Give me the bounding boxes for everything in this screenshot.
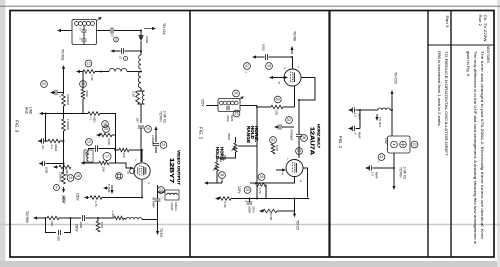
label HORIZ HOLD (215, 147, 224, 162)
video output tube V1 12BY7 (130, 163, 151, 179)
resistor R7 4.7MEG (59, 165, 71, 169)
capacitor C21 .5MMF (348, 126, 360, 131)
part callout 51 (270, 137, 277, 144)
svg-text:46: 46 (220, 173, 224, 177)
node under tuner (393, 167, 395, 169)
svg-text:14: 14 (81, 82, 85, 86)
wire branch down from AGC (45, 114, 47, 142)
svg-text:4.5MC: 4.5MC (170, 202, 174, 212)
svg-text:4.7K: 4.7K (94, 201, 98, 207)
FIG2 left rail (256, 106, 258, 199)
label 2.2K (132, 91, 136, 97)
wire rail R3 to R4 (63, 106, 65, 119)
label 1.5 at C3 (111, 34, 115, 38)
svg-text:240V: 240V (62, 196, 66, 204)
node diode-capacitor branch (140, 51, 142, 53)
wire L2 to left node (101, 71, 141, 73)
wire 183 line (208, 180, 222, 184)
capacitor C6 .047 (138, 126, 144, 128)
note heading TO REDUCE HORIZONTAL OSCILLATOR DRIFT (444, 51, 448, 157)
svg-text:1MHG: 1MHG (174, 202, 178, 211)
arrow left at 183 (204, 181, 209, 184)
svg-text:NEW TUBES: NEW TUBES (486, 46, 490, 63)
svg-text:MMF: MMF (358, 132, 362, 139)
label TO C5 (296, 220, 300, 230)
resistor R18 4.7K (255, 183, 266, 199)
label 68 MMF (152, 197, 156, 208)
label 2.2MMF (151, 135, 155, 146)
svg-text:Run 2: Run 2 (478, 15, 482, 27)
label 4.7 MEG b (89, 117, 97, 123)
capacitor C7 with arrow (50, 90, 64, 98)
svg-text:4000: 4000 (84, 152, 86, 158)
svg-text:5.6K: 5.6K (275, 145, 279, 151)
wire rail down (63, 131, 65, 172)
svg-text:1.5MEG: 1.5MEG (66, 119, 70, 131)
node AGC junction (63, 113, 65, 115)
capacitor C10 (89, 145, 116, 151)
wire right rail down (157, 220, 159, 229)
label 240V (62, 196, 66, 204)
svg-text:68 MMF: 68 MMF (152, 197, 156, 208)
bottom scan margin (0, 261, 500, 267)
label 260V (61, 195, 65, 203)
label TO C25 (394, 72, 398, 84)
label 10K b (275, 110, 279, 115)
part callout 13 (85, 60, 92, 67)
resistor R16 10K (256, 86, 295, 109)
svg-text:18: 18 (69, 176, 73, 180)
capacitor C20 1.5MMF (348, 107, 360, 112)
peaking coil L1 (139, 55, 141, 69)
tube V1 grid X (127, 171, 130, 175)
part callout 8 (54, 185, 60, 191)
svg-text:.22: .22 (41, 145, 45, 150)
label 225V feed (201, 99, 205, 107)
svg-text:HORIZ MULT: HORIZ MULT (317, 124, 321, 149)
wire T2 to rail (240, 105, 257, 107)
part callout 15 at C3 (114, 37, 119, 42)
top scan edge line (0, 5, 500, 7)
wire 57 line right (269, 56, 293, 58)
resistor R9 470K grid (100, 133, 112, 137)
label 2200 MMF (226, 115, 234, 122)
svg-text:24: 24 (42, 82, 46, 86)
svg-text:8: 8 (56, 186, 58, 190)
spark gap symbol (116, 173, 123, 180)
svg-text:FIG. 2: FIG. 2 (199, 127, 204, 140)
svg-text:50: 50 (276, 98, 280, 102)
label 1.2K (111, 211, 115, 217)
FIG. 3 caption (15, 120, 20, 133)
label HORIZ HOLD RANGE (246, 126, 259, 143)
svg-text:24: 24 (162, 143, 166, 147)
wire AGC to grid column (100, 114, 116, 136)
part callout 38 (301, 135, 308, 142)
svg-text:13: 13 (87, 62, 91, 66)
part callout 14 (80, 81, 87, 88)
bypass loop rectangle (46, 218, 71, 233)
svg-text:52: 52 (287, 118, 291, 122)
resistor R20 270K (263, 209, 277, 213)
tube V1 pin 7 label (135, 158, 137, 162)
wire into top tube grid (269, 76, 288, 85)
svg-text:.5: .5 (354, 132, 358, 135)
note header Run 3 (445, 16, 449, 28)
arrow left on grid line (76, 70, 81, 73)
wire grid line y72 (79, 71, 101, 73)
tube V2B plate loop (298, 78, 315, 198)
svg-text:10K: 10K (275, 110, 279, 115)
transformer T2 winding (220, 101, 238, 105)
part callout 15 (103, 126, 110, 133)
capacitor C5 branch (113, 48, 141, 54)
part callout 52 (286, 117, 293, 124)
pin labels V2B (287, 157, 302, 183)
part callout 24 top-left (41, 81, 48, 88)
note header Run 2 (478, 15, 482, 27)
label 1.5 MMF a (354, 113, 362, 120)
boxed coil 4.5MC trap (165, 190, 179, 200)
wire y163 segment (85, 163, 131, 168)
tube V1 grid lead (128, 167, 134, 170)
left rail wire (63, 85, 65, 94)
svg-text:1000: 1000 (262, 44, 266, 51)
tube V1 cathode lead (141, 180, 143, 197)
wire top-left to transformer (61, 30, 73, 32)
label 12AU7A (309, 127, 315, 155)
node 257 on 198 line (256, 198, 258, 200)
svg-text:34: 34 (234, 92, 238, 96)
svg-text:1.5: 1.5 (354, 113, 358, 117)
label 1000 c (262, 44, 266, 51)
label TO PIN 1 OF V1 (159, 111, 167, 123)
FIG. 2 caption (199, 127, 204, 140)
svg-text:TO PIN: TO PIN (159, 111, 163, 122)
part callout 10 (145, 126, 152, 133)
node cathode junction (141, 197, 143, 199)
label 22K (50, 221, 54, 226)
capacitor C22 1.5MMF (365, 165, 394, 170)
svg-text:1N60: 1N60 (145, 36, 149, 44)
svg-text:47: 47 (245, 64, 249, 68)
label VIDEO OUTPUT (177, 150, 182, 186)
electrolytic 8 AMF (103, 184, 111, 193)
svg-text:325V: 325V (252, 206, 256, 213)
arrow down at 112 (110, 185, 113, 194)
label 130V (76, 193, 80, 201)
svg-text:470K: 470K (107, 138, 111, 145)
part callout 17 (103, 153, 111, 161)
label 240MMF (290, 129, 294, 141)
node at .22 cap (45, 140, 47, 142)
resistor R12 4.7K (90, 196, 102, 200)
svg-text:HOLD: HOLD (215, 147, 220, 159)
label 15MEG (59, 172, 63, 183)
part callout 46 (219, 172, 226, 179)
horiz mult tube V2B bottom half (286, 160, 303, 177)
svg-text:MEG: MEG (65, 170, 69, 178)
notes header separator line (428, 44, 494, 46)
svg-text:Ch. TV-223W: Ch. TV-223W (483, 15, 487, 42)
label 6.8MEG (66, 94, 70, 106)
capacitor C9 1000 (39, 161, 64, 166)
arrow TO R8 up (290, 46, 293, 54)
wire transformer to C3 (97, 30, 111, 32)
node loop left (45, 217, 47, 219)
diode M1 1N60 (139, 31, 144, 41)
svg-text:16: 16 (76, 174, 80, 178)
svg-text:FIG. 3: FIG. 3 (15, 120, 20, 133)
arrow 260V down (62, 187, 65, 193)
note paragraph line 2 (473, 51, 477, 244)
label .5 MMF (354, 132, 362, 139)
svg-text:TO R66: TO R66 (25, 211, 29, 223)
label 10K (122, 153, 126, 158)
wire 225V to T2 (206, 105, 218, 107)
capacitor C2 inside transformer (79, 36, 87, 45)
wire AGC line (43, 113, 88, 115)
capacitor C1 inside transformer (79, 26, 87, 37)
transformer T2 box (218, 99, 240, 112)
wire 211 line (277, 210, 295, 212)
svg-text:given in Fig. 8.: given in Fig. 8. (466, 51, 470, 77)
part callout 12 (86, 139, 93, 146)
svg-text:15M: 15M (384, 138, 388, 144)
node 294 on 198 line (294, 198, 296, 200)
trimmer arrow on transformer (97, 17, 102, 21)
note paragraph line 3 (466, 51, 470, 77)
label TO R31 b (378, 117, 382, 128)
wire coil chain down (140, 104, 142, 123)
wire 57 line left (256, 56, 265, 58)
node rail at 141 (63, 140, 65, 142)
part callout 21 (158, 187, 165, 194)
arrow TO C5 down (293, 211, 296, 218)
note paragraph line 1 (480, 51, 484, 239)
arrow left at 211 (259, 209, 264, 212)
svg-text:225V: 225V (201, 99, 205, 107)
resistor R2 3.3K (83, 70, 95, 74)
wire 198 line (231, 198, 309, 200)
pot hold range (222, 137, 257, 158)
label TO R8 (293, 31, 297, 41)
capacitor C11 2.2MMF (153, 135, 159, 153)
coil L5 bottom (124, 218, 158, 220)
node cap branch (359, 109, 361, 111)
svg-text:22K: 22K (50, 221, 54, 226)
part callout 34 (233, 90, 240, 97)
svg-text:+: + (245, 200, 247, 204)
svg-text:2.2K: 2.2K (132, 91, 136, 97)
svg-text:240MMF: 240MMF (290, 129, 294, 141)
coil L3 (138, 72, 141, 89)
part callout 42 (378, 154, 385, 163)
divider between FIG. 2 and FIG. 1 (328, 11, 330, 258)
resistor R4 1.5MEG (62, 119, 66, 131)
label 15M (384, 138, 388, 144)
svg-text:130V: 130V (76, 193, 80, 201)
part callout 50 (274, 96, 281, 103)
pin 2 label top tube (284, 66, 286, 70)
resistor R6 15MEG (62, 172, 66, 184)
resistor R17 5.6K (271, 144, 275, 154)
part callout 16b (102, 121, 109, 128)
svg-text:1.2K: 1.2K (111, 211, 115, 217)
boxed coil L4 (84, 150, 93, 162)
arrow TO C25 up (390, 90, 393, 97)
label .22 (41, 145, 45, 150)
right scan margin (497, 0, 500, 267)
label 250K (227, 133, 231, 140)
label .047 (136, 117, 140, 123)
wire tuner down (393, 153, 395, 186)
svg-text:4.7: 4.7 (89, 117, 93, 121)
svg-text:MMF: MMF (230, 115, 234, 122)
part callout 18b (266, 63, 273, 70)
wire plate line (114, 149, 142, 151)
capacitor C8 .22 (38, 138, 49, 143)
svg-text:TO REDUCE HORIZONTAL OSCILLATO: TO REDUCE HORIZONTAL OSCILLATOR DRIFT (444, 51, 448, 157)
arrow left of R7 (53, 165, 58, 168)
svg-text:1 OF V3: 1 OF V3 (403, 167, 407, 179)
node at 292 (291, 56, 293, 58)
svg-text:1.5: 1.5 (111, 34, 115, 38)
note line R50 increased (437, 51, 441, 127)
node at coil right (391, 109, 393, 111)
wire C14 to R15 (86, 217, 115, 219)
svg-text:270K: 270K (269, 214, 273, 221)
arrow left big (81, 161, 85, 164)
label 1.5 MMF b (371, 172, 379, 179)
arrow left at 57 (252, 55, 257, 58)
resistor R15 1.2K (114, 216, 124, 220)
node AGC branch (45, 113, 47, 115)
label 20MF 325V (248, 206, 256, 214)
left scan margin (0, 0, 6, 267)
label 3.3K (90, 75, 94, 81)
wire C25 down to node (391, 97, 393, 136)
svg-text:42: 42 (380, 155, 384, 159)
label TO PIN 1 OF V3 (399, 167, 407, 179)
svg-text:RANGE: RANGE (246, 126, 251, 143)
divider between Run 3 and Run 2 columns (450, 11, 452, 258)
part callout 24b (160, 142, 167, 149)
wire R66 line (37, 217, 46, 219)
svg-text:1.5: 1.5 (119, 56, 123, 60)
svg-text:470K: 470K (85, 90, 89, 97)
svg-text:15: 15 (104, 127, 108, 131)
wire diode to coil (140, 41, 142, 55)
wire plate top tube (292, 57, 294, 69)
svg-text:35: 35 (246, 188, 250, 192)
resistor R1 8.2K with parallel coil (136, 88, 145, 107)
label 4.5MC 1MHG (170, 202, 178, 212)
svg-text:MMF: MMF (375, 172, 379, 179)
label 4.7K b (258, 188, 262, 194)
arrow TO L2A (144, 27, 156, 30)
resistor R19 8.2K (219, 197, 231, 201)
wire C3 to node (114, 30, 141, 32)
resistor R10 25K (99, 161, 109, 165)
coupling coil L2 horizontal (109, 69, 127, 72)
label 5.6K (100, 222, 104, 228)
resistor R11 10K (119, 148, 129, 152)
label 8.2K b (223, 202, 227, 208)
svg-text:2200: 2200 (226, 115, 230, 122)
arrow TO R31 up (62, 65, 65, 93)
part callout 18 (67, 175, 74, 182)
svg-text:1000: 1000 (45, 167, 49, 174)
resistor R3 6.8MEG (62, 94, 66, 106)
label 1000 b (79, 222, 83, 229)
tuner adjust screw A (391, 141, 398, 148)
capacitor C17 240MMF (274, 124, 294, 129)
svg-text:250K: 250K (227, 133, 231, 140)
svg-text:12AU7A: 12AU7A (309, 127, 315, 155)
svg-text:53: 53 (297, 149, 301, 153)
node 249 on 198 line (249, 198, 251, 200)
svg-text:6.8MEG: 6.8MEG (66, 94, 70, 106)
svg-text:R50 is increased from 1 watt t: R50 is increased from 1 watt to 2 watts. (437, 51, 441, 127)
FIG. 1 caption (338, 136, 343, 149)
tuner box (388, 136, 411, 153)
label 4.7 MEG (61, 170, 69, 178)
node loop right (70, 217, 72, 219)
capacitor C15 in T2 (227, 106, 229, 110)
trimmer arrow T2 (240, 97, 244, 100)
svg-text:28: 28 (260, 175, 264, 179)
svg-text:AGC: AGC (25, 107, 29, 115)
capacitor C3 (111, 28, 113, 34)
arrow up TO PIN (154, 126, 157, 135)
svg-text:50K: 50K (223, 155, 227, 160)
wire coil left (360, 109, 392, 111)
horizontal scan artifact line (0, 224, 500, 226)
resistor R8 470K (81, 72, 85, 114)
label HORIZ MULT (317, 124, 321, 149)
svg-text:TO C5: TO C5 (296, 220, 300, 230)
svg-text:10: 10 (146, 127, 150, 131)
svg-text:The only difference is in the: The only difference is in the UHF dial c… (473, 51, 477, 244)
note header Ch. TV-223W (483, 15, 487, 42)
resistor R13 22K (47, 216, 59, 220)
svg-text:260V: 260V (75, 224, 79, 232)
part callout 28 (258, 174, 265, 181)
pot hold (213, 158, 222, 183)
node left of L2 (100, 71, 102, 73)
tube V2B grid arrow (276, 168, 286, 171)
wire R12 to cathode (102, 197, 142, 199)
svg-text:8.2K: 8.2K (223, 202, 227, 208)
label 1.5MEG (66, 119, 70, 131)
part callout 35 (244, 187, 251, 194)
label 470K (85, 90, 89, 97)
tuner adjust screw B (400, 141, 407, 148)
coil L6 (378, 108, 390, 110)
svg-text:4.7: 4.7 (61, 170, 65, 175)
svg-text:TO L2A: TO L2A (162, 23, 166, 35)
wire R5 to rail (60, 140, 64, 142)
capacitor C18 interstage (296, 128, 302, 158)
label TO R66 (25, 211, 29, 223)
wire 22K to C14 (59, 217, 81, 219)
label TO R2 (159, 228, 163, 238)
label 5.6K b (275, 145, 279, 151)
tube V2B cathode to 183 line (250, 177, 295, 184)
node plate line (141, 149, 143, 151)
part callout 53 (296, 148, 303, 155)
